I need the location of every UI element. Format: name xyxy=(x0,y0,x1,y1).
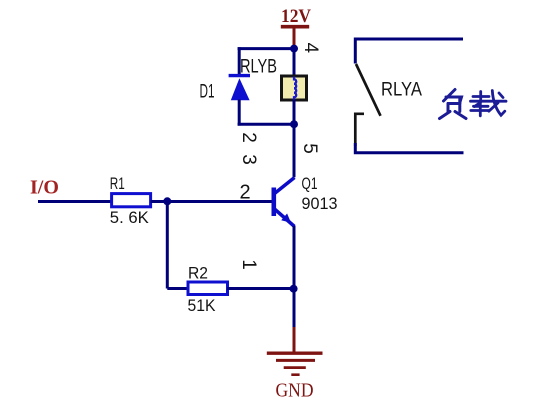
power symbol 12V bar xyxy=(281,25,309,29)
wire branch vertical to R2 xyxy=(166,202,169,289)
transistor Q1 emitter stroke xyxy=(275,209,295,227)
wire left loop upper xyxy=(238,47,241,75)
ground symbol bar 3 xyxy=(284,366,306,369)
wire 12V stem xyxy=(293,27,296,49)
relay coil RLYB box xyxy=(282,76,307,100)
ground symbol bar 2 xyxy=(276,359,315,362)
node junction relay top xyxy=(290,45,298,53)
resistor R1 xyxy=(112,194,151,207)
wire R1 to base xyxy=(151,200,274,203)
relay contact RLYA top rail xyxy=(355,39,463,64)
wire relay coil bottom lead xyxy=(293,100,296,125)
svg-text:2: 2 xyxy=(238,132,259,143)
svg-text:3: 3 xyxy=(238,154,259,165)
relay coil RLYB squiggle xyxy=(294,77,296,101)
svg-text:RLYA: RLYA xyxy=(381,80,422,101)
relay contact RLYA blade xyxy=(356,64,381,116)
pin 3 label (coil) xyxy=(238,154,259,165)
svg-text:5. 6K: 5. 6K xyxy=(110,208,150,227)
svg-text:GND: GND xyxy=(276,381,314,402)
transistor Q1 base bar xyxy=(271,188,276,217)
svg-text:RLYB: RLYB xyxy=(240,57,277,78)
wire relay coil top lead xyxy=(293,49,296,77)
svg-text:1: 1 xyxy=(238,259,259,270)
svg-text:12V: 12V xyxy=(281,6,311,27)
wire bottom rail (relay loop bottom) xyxy=(238,123,294,126)
wire top rail (relay loop top) xyxy=(238,47,294,50)
wire emitter to ground (blue part) xyxy=(293,289,296,329)
node junction relay bottom xyxy=(290,120,298,128)
pin 1 label (emitter) xyxy=(238,259,259,270)
wire I/O to R1 xyxy=(38,200,112,203)
relay contact RLYA bottom bracket xyxy=(355,114,364,146)
wire to R2 left xyxy=(167,287,189,290)
wire collector vertical xyxy=(293,124,296,177)
relay contact RLYA bottom rail xyxy=(355,143,463,153)
load text 载 (hand-drawn strokes) xyxy=(471,91,507,116)
svg-text:Q1: Q1 xyxy=(302,174,318,193)
ground symbol bar 4 xyxy=(291,373,299,376)
svg-text:I/O: I/O xyxy=(30,177,59,199)
ground symbol bar 1 xyxy=(267,352,323,355)
svg-text:R1: R1 xyxy=(110,174,125,193)
svg-text:R2: R2 xyxy=(188,264,208,283)
diode D1 triangle xyxy=(231,78,250,100)
svg-text:9013: 9013 xyxy=(302,194,338,213)
transistor Q1 collector stroke xyxy=(275,178,295,194)
svg-text:51K: 51K xyxy=(188,296,217,315)
transistor Q1 emitter arrow xyxy=(281,214,291,223)
svg-text:4: 4 xyxy=(300,43,321,54)
svg-text:5: 5 xyxy=(299,143,320,154)
wire R2 right to emitter xyxy=(227,287,294,290)
wire ground stem (maroon part) xyxy=(293,327,296,353)
resistor R2 xyxy=(188,282,228,295)
svg-text:D1: D1 xyxy=(200,82,215,103)
wire left loop lower xyxy=(238,100,241,126)
wire emitter vertical xyxy=(293,226,296,289)
load text 负 (hand-drawn strokes) xyxy=(440,90,467,119)
node junction base branch xyxy=(163,197,171,205)
pin 4 label xyxy=(300,43,321,54)
svg-text:2: 2 xyxy=(240,182,251,204)
diode D1 cathode bar xyxy=(229,74,250,77)
node junction emitter/R2 xyxy=(290,285,298,293)
pin 2 label (coil) xyxy=(238,132,259,143)
pin 5 label xyxy=(299,143,320,154)
